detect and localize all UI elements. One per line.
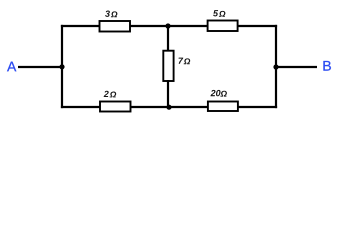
label 7Ω value: [179, 58, 191, 65]
wire B lead: [276, 66, 317, 68]
junction dot at node A branch point: [59, 64, 64, 69]
wire bottom rail left segment: [61, 106, 100, 108]
wire A lead: [18, 66, 62, 68]
junction dot bottom middle node: [166, 105, 171, 110]
wire bottom rail right segment: [238, 106, 277, 108]
wire bottom rail middle segment: [131, 106, 209, 108]
resistor 20Ω body: [208, 102, 238, 112]
resistor 2Ω body: [100, 102, 131, 112]
wire top rail middle segment: [130, 25, 208, 27]
wire middle vertical upper segment: [167, 26, 169, 52]
wire right vertical branch: [275, 25, 277, 108]
label 20Ω value: [210, 90, 226, 97]
resistor 3Ω body: [100, 21, 131, 32]
junction dot at node B branch point: [273, 64, 278, 69]
wire top rail left segment: [61, 25, 100, 27]
resistor 7Ω body (vertical): [163, 51, 173, 81]
wire left vertical branch: [61, 25, 63, 108]
wire middle vertical lower segment: [167, 80, 169, 107]
node B (terminal label): [323, 61, 330, 71]
label 2Ω value: [104, 91, 117, 98]
label 5Ω value: [213, 10, 225, 17]
resistor 5Ω body: [208, 21, 238, 32]
label 3Ω value: [105, 11, 117, 18]
junction dot top middle node: [165, 23, 170, 28]
node A (terminal label): [7, 62, 16, 72]
wire top rail right segment: [238, 25, 278, 27]
